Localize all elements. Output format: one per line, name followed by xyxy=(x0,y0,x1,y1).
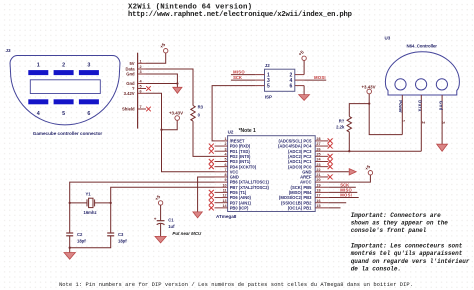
svg-text:Note 1: Pin numbers are for DI: Note 1: Pin numbers are for DIP version … xyxy=(59,281,413,288)
svg-text:2: 2 xyxy=(140,65,142,69)
wire SCK (U2) xyxy=(328,186,356,188)
svg-text:montrés tel qu'ils apparaissen: montrés tel qu'ils apparaissent xyxy=(350,250,463,257)
svg-text:C3: C3 xyxy=(118,232,124,237)
J3 pin pad 6 xyxy=(79,99,99,104)
svg-text:9: 9 xyxy=(225,178,227,182)
svg-text:Data: Data xyxy=(418,100,423,112)
wire C3 to gnd join xyxy=(70,236,111,248)
U2 left pin 12 PD6 (AIN0) xyxy=(209,194,252,201)
U3 pin Gnd wire xyxy=(441,95,443,144)
U3 socket hole 2 xyxy=(416,79,427,90)
U2 left pin 4 PD2 (INT0) xyxy=(215,152,252,159)
wire PB6 to crystal xyxy=(70,182,215,203)
svg-text:Put near MCU: Put near MCU xyxy=(172,231,202,236)
J3 connector body outline xyxy=(10,56,120,125)
wire U2 GND to ground xyxy=(198,177,215,212)
ground symbol (GC gnd) xyxy=(173,87,182,93)
GC header body line xyxy=(137,53,139,129)
supply +3.43V symbol (N64 side) xyxy=(361,85,375,94)
mcu U2 xyxy=(209,128,333,219)
wire ISP RESET to U2 xyxy=(212,86,255,141)
wire C1 to ground xyxy=(160,224,162,237)
U2 right pin 15 (OC1A) PB1 xyxy=(288,204,329,211)
U2 left pin 6 PD4 (XCK/T0) xyxy=(209,163,257,170)
U2 right pin 16 (SS/OC1B) PB2 xyxy=(281,199,328,206)
svg-text:4: 4 xyxy=(37,111,40,117)
svg-text:MOSI: MOSI xyxy=(314,75,326,80)
svg-text:4: 4 xyxy=(140,80,143,84)
svg-text:28: 28 xyxy=(316,137,320,141)
svg-text:console's front panel: console's front panel xyxy=(351,227,427,234)
U2 right pin 17 (MOSI/OC2) PB3 xyxy=(279,194,328,201)
GC pin 7 stub xyxy=(138,108,146,110)
svg-text:R3: R3 xyxy=(198,105,204,110)
wire J2 pin6 to ground xyxy=(303,86,305,95)
svg-text:7: 7 xyxy=(140,105,142,109)
wire J2 pin2 to +5 xyxy=(303,61,305,75)
wire tap to +3.43V supply xyxy=(162,120,178,129)
U2 right pin 20 AVCC xyxy=(300,178,328,185)
important note FR xyxy=(350,242,470,272)
ground symbol (N64 gnd) xyxy=(437,144,448,151)
svg-text:1: 1 xyxy=(225,137,227,141)
junction R? bottom xyxy=(348,150,350,152)
J2 pin 2 stub xyxy=(295,74,304,76)
U2 left pin 9 PB6 (XTAL1/TOSC1) xyxy=(215,178,270,185)
wire PB7 to crystal xyxy=(111,187,215,203)
svg-text:MOSI: MOSI xyxy=(340,193,352,198)
capacitor C3 xyxy=(107,233,114,236)
U2 left pin 7 VCC xyxy=(215,168,239,175)
supply +5 symbol (AVCC) xyxy=(364,164,373,175)
resistor R? 2.2k xyxy=(347,116,351,132)
U2 left pin 10 PB7 (XTAL2/TOSC2) xyxy=(215,183,270,190)
svg-text:5: 5 xyxy=(267,83,270,89)
svg-text:11: 11 xyxy=(223,189,227,193)
svg-text:SCK: SCK xyxy=(233,75,242,80)
wire C2 to ground xyxy=(69,236,71,253)
important note EN xyxy=(351,212,449,234)
svg-text:18pf: 18pf xyxy=(77,239,86,244)
wire PB2 xyxy=(328,202,346,204)
svg-text:Gnd: Gnd xyxy=(438,101,443,111)
U2 right pin 23 (ADC0) PC0 xyxy=(288,163,333,170)
svg-text:6: 6 xyxy=(87,111,90,117)
GC pin 3 stub xyxy=(138,73,146,75)
J2 box xyxy=(265,69,295,91)
no-connect X pin 7 xyxy=(146,107,151,112)
svg-text:4: 4 xyxy=(225,152,228,156)
svg-text:0: 0 xyxy=(198,112,201,117)
svg-text:Gamecube controller connector: Gamecube controller connector xyxy=(33,131,103,136)
U2 right pin 19 (SCK) PB5 xyxy=(291,183,329,190)
gamecube header pins xyxy=(122,53,151,129)
svg-text:5: 5 xyxy=(225,158,227,162)
J3 pin pad 2 xyxy=(54,70,74,75)
svg-text:2.2k: 2.2k xyxy=(336,124,345,129)
svg-text:C1: C1 xyxy=(168,218,174,223)
wire MOSI (J2) xyxy=(304,79,326,81)
svg-text:+3.43V: +3.43V xyxy=(169,111,183,116)
svg-text:J2: J2 xyxy=(265,63,271,68)
U3 socket hole 3 xyxy=(436,79,447,90)
wire Gnd pin4 xyxy=(146,83,177,85)
wire Gnd pin3 xyxy=(146,74,177,87)
wire R? top to 3.43V xyxy=(349,104,369,117)
svg-text:(OC1A) PB1: (OC1A) PB1 xyxy=(288,205,312,210)
svg-text:Important: Connectors are: Important: Connectors are xyxy=(351,212,441,219)
svg-text:6: 6 xyxy=(140,89,142,93)
right side nets xyxy=(328,85,421,208)
GC pin 6 stub xyxy=(138,92,146,94)
svg-text:18: 18 xyxy=(316,189,320,193)
wire U2 GND right xyxy=(328,171,349,173)
svg-text:Y1: Y1 xyxy=(86,191,92,196)
svg-text:13: 13 xyxy=(222,199,226,203)
U2 right pin 25 (ADC2) PC2 xyxy=(288,152,333,159)
U2 right pin 26 (ADC3) PC3 xyxy=(288,147,328,154)
U2 right pin 24 (ADC1) PC1 xyxy=(288,158,333,165)
U2 right pin 27 (ADC4/SDA) PC4 xyxy=(278,142,333,149)
svg-text:25: 25 xyxy=(316,152,320,156)
svg-text:1: 1 xyxy=(140,59,142,63)
svg-text:6: 6 xyxy=(290,83,293,89)
svg-text:18pf: 18pf xyxy=(118,239,127,244)
title text xyxy=(128,4,352,19)
U2 left pin 13 PD7 (AIN1) xyxy=(209,199,252,206)
J3 center slot xyxy=(30,80,100,94)
svg-text:7: 7 xyxy=(225,168,227,172)
U2 right pin 18 (MISO) PB4 xyxy=(289,189,329,196)
svg-text:22: 22 xyxy=(316,168,320,172)
wire SCK (J2) xyxy=(231,79,256,81)
svg-text:shown as they appear on the: shown as they appear on the xyxy=(351,220,449,227)
J2 pin 1 stub xyxy=(255,74,264,76)
junction crystal left xyxy=(69,202,71,204)
GC pin 4 stub xyxy=(138,83,146,85)
svg-text:U3: U3 xyxy=(385,36,391,41)
supply +5 symbol (C1) xyxy=(154,194,163,205)
ground symbol (U2 right, rotated) xyxy=(349,169,356,175)
svg-text:Shield: Shield xyxy=(122,107,135,112)
svg-text:27: 27 xyxy=(316,142,320,146)
svg-text:*Note 1: *Note 1 xyxy=(239,128,256,134)
U2 left pin 11 PD5 (T1) xyxy=(209,189,247,196)
GC pin 5 stub xyxy=(138,88,146,90)
wire +3.43V supply to power wire xyxy=(369,94,402,135)
junction 3.43V tap xyxy=(160,129,162,131)
svg-text:C2: C2 xyxy=(77,232,83,237)
capacitor C1 polarized xyxy=(154,217,165,225)
svg-text:16: 16 xyxy=(316,199,320,203)
U2 right pin 21 AREF xyxy=(300,173,333,180)
ground symbol (J2) xyxy=(299,95,310,101)
GC pin 2 stub xyxy=(138,68,146,70)
svg-text:3: 3 xyxy=(140,70,142,74)
U2 left pin 14 PB0 (ICP) xyxy=(209,204,249,211)
svg-text:http://www.raphnet.net/electro: http://www.raphnet.net/electronique/x2wi… xyxy=(128,11,352,19)
svg-text:12: 12 xyxy=(222,194,226,198)
J2 pin 5 stub xyxy=(255,85,264,87)
wire N64 data net (PC3) xyxy=(328,150,421,152)
ground symbol (U2 gnd) xyxy=(193,212,202,218)
n64 controller U3 xyxy=(385,36,460,152)
wire xtal left to C2 xyxy=(69,203,71,233)
resistor R3 xyxy=(191,106,195,122)
U2 left pin 3 PD1 (TXD) xyxy=(209,147,251,154)
svg-text:ISP: ISP xyxy=(265,94,272,99)
svg-text:2: 2 xyxy=(62,63,65,69)
supply +5 symbol (J2) xyxy=(297,49,306,60)
junction crystal right xyxy=(110,202,112,204)
J2 pin 6 stub xyxy=(295,85,304,87)
notes xyxy=(59,212,470,288)
J2 pin 3 stub xyxy=(255,79,264,81)
isp connector J2 xyxy=(231,49,326,100)
wire MOSI (U2) xyxy=(328,197,358,199)
svg-text:3.42V: 3.42V xyxy=(124,91,135,96)
svg-text:15: 15 xyxy=(316,204,320,208)
wire xtal right to C3 xyxy=(110,203,112,233)
J2 pin 4 stub xyxy=(295,79,304,81)
svg-text:N64_Controller: N64_Controller xyxy=(407,44,438,49)
J3 pin pad 3 xyxy=(79,70,99,75)
svg-text:MISO: MISO xyxy=(233,70,245,75)
svg-text:5: 5 xyxy=(140,85,142,89)
U2 box xyxy=(228,136,316,212)
svg-text:Gnd: Gnd xyxy=(126,72,135,77)
supply +3.43V symbol (GC side) xyxy=(169,111,183,121)
crystal and caps xyxy=(64,191,202,259)
svg-text:1: 1 xyxy=(37,63,40,69)
wire MISO (J2) xyxy=(231,74,256,76)
wire Data net to R3 xyxy=(146,69,193,106)
svg-text:R?: R? xyxy=(339,118,345,123)
ground symbol (xtal) xyxy=(64,253,75,260)
svg-text:3: 3 xyxy=(225,147,227,151)
svg-text:+3.43V: +3.43V xyxy=(361,85,375,90)
svg-text:quand on regarde vers l'intéri: quand on regarde vers l'intérieur xyxy=(351,258,470,265)
svg-text:J3: J3 xyxy=(6,48,12,53)
svg-text:10: 10 xyxy=(222,183,226,187)
svg-text:21: 21 xyxy=(316,173,320,177)
U3 pin Data wire xyxy=(420,95,422,151)
U2 right pin 28 (ADC5/SCL) PC5 xyxy=(278,137,332,144)
supply +5 symbol (GC 5V) xyxy=(159,42,168,53)
svg-text:Power: Power xyxy=(398,100,403,113)
svg-text:1: 1 xyxy=(401,120,406,123)
U2 right pin 22 GND xyxy=(302,168,328,175)
svg-text:2: 2 xyxy=(225,142,227,146)
U3 pin Power wire xyxy=(401,95,403,135)
gamecube connector J3 xyxy=(6,48,120,136)
svg-text:+: + xyxy=(154,217,157,222)
svg-text:26: 26 xyxy=(316,147,320,151)
U3 socket hole 1 xyxy=(395,79,406,90)
wire MISO (U2) xyxy=(328,191,357,193)
svg-text:8: 8 xyxy=(225,173,227,177)
svg-text:PB0 (ICP): PB0 (ICP) xyxy=(230,205,249,210)
svg-text:1uf: 1uf xyxy=(168,224,175,229)
svg-text:5: 5 xyxy=(62,111,65,117)
svg-text:5V: 5V xyxy=(129,61,134,66)
no-connect X pin 5 xyxy=(146,86,151,91)
wire PB1 xyxy=(328,207,340,209)
svg-text:16mhz: 16mhz xyxy=(84,210,97,215)
capacitor C2 xyxy=(66,233,73,236)
U2 left pin 2 PD0 (RXD) xyxy=(209,142,251,149)
svg-text:17: 17 xyxy=(316,194,320,198)
GC pin 1 stub xyxy=(138,62,146,64)
ground symbol (C1) xyxy=(155,236,166,243)
svg-text:23: 23 xyxy=(316,163,320,167)
U3 body outline xyxy=(385,52,459,95)
J3 pin pad 4 xyxy=(28,99,48,104)
wire +5 to C1 xyxy=(160,205,162,221)
svg-text:19: 19 xyxy=(316,183,320,187)
U2 left pin 8 GND xyxy=(215,173,239,180)
junction gnd xyxy=(176,82,178,84)
J3 pin pad 5 xyxy=(54,99,74,104)
junction 3.43V N64 xyxy=(368,102,370,104)
J3 pin pad 1 xyxy=(28,70,48,75)
junction C3 gnd join xyxy=(69,247,71,249)
crystal Y1 xyxy=(70,198,111,207)
wire R? bottom to data net xyxy=(348,132,350,152)
svg-text:Important: Les connecteurs son: Important: Les connecteurs sont xyxy=(351,242,463,249)
svg-text:3: 3 xyxy=(87,63,90,69)
wire 3.42V to VCC xyxy=(146,93,215,172)
svg-text:14: 14 xyxy=(222,204,227,208)
svg-text:20: 20 xyxy=(316,178,320,182)
U2 left pin 5 PD3 (INT1) xyxy=(209,158,251,165)
svg-text:6: 6 xyxy=(225,163,227,167)
wire 5V net xyxy=(146,53,166,63)
svg-text:ATmega8: ATmega8 xyxy=(216,214,237,219)
svg-text:de la console.: de la console. xyxy=(351,266,401,273)
middle wires xyxy=(70,42,256,218)
svg-text:U2: U2 xyxy=(228,130,234,135)
wire R3 to PD2 xyxy=(193,121,215,156)
U2 left pin 1 /RESET xyxy=(215,137,245,144)
wire AVCC to +5 xyxy=(328,175,370,182)
